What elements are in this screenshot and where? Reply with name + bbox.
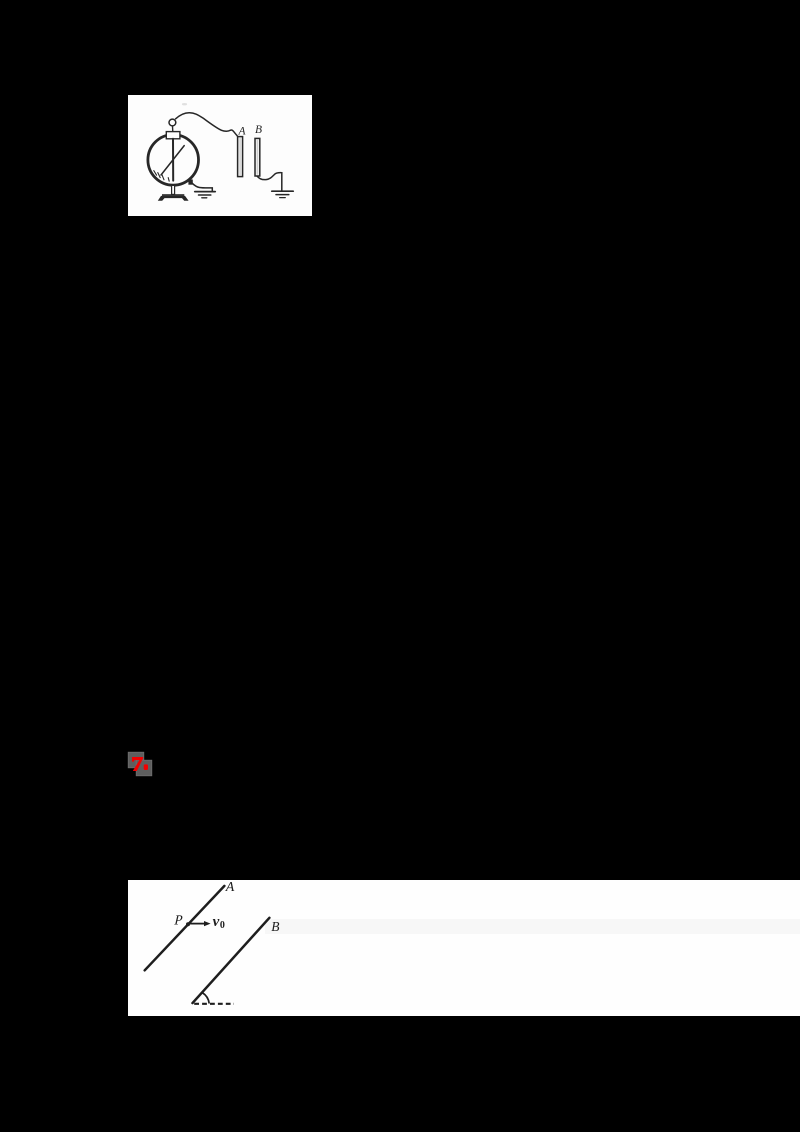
red period dot	[144, 764, 148, 770]
connection nub	[189, 180, 192, 184]
svg-text:B: B	[255, 124, 262, 136]
stand base	[162, 194, 184, 196]
wire plate B to right ground	[257, 173, 282, 191]
wire nub to left ground	[192, 183, 212, 191]
knob stem	[172, 126, 174, 132]
wire knob to plate A	[176, 113, 239, 138]
electroscope knob	[169, 119, 176, 126]
svg-text:A: A	[225, 880, 235, 895]
white strip background	[128, 880, 800, 1016]
white panel background	[128, 95, 312, 216]
figure panel: electroscope with plates A and B	[128, 95, 312, 216]
electroscope cap	[166, 132, 180, 139]
incline A	[145, 886, 225, 970]
plate B	[255, 138, 260, 176]
ground symbol right	[272, 190, 293, 192]
incline B	[193, 918, 270, 1003]
electroscope case circle	[148, 135, 199, 186]
electroscope rod	[172, 139, 174, 181]
faint smudge	[182, 103, 187, 105]
plate A	[238, 137, 243, 177]
ground symbol left	[195, 191, 215, 193]
faint scan band	[265, 919, 800, 934]
point P dot	[186, 922, 190, 926]
svg-text:B: B	[271, 919, 279, 934]
velocity arrow v0	[189, 923, 205, 925]
svg-text:v: v	[213, 914, 220, 930]
scale tick marks	[154, 171, 157, 176]
svg-text:0: 0	[220, 920, 225, 931]
gray square upper	[128, 752, 144, 768]
svg-text:7: 7	[131, 753, 143, 775]
figure panel: inclined planes A and B	[128, 880, 800, 1016]
gray square lower	[136, 760, 152, 776]
angle arc	[202, 993, 209, 1004]
question number 7 marker	[124, 748, 156, 780]
needle	[161, 146, 184, 175]
stand rod	[172, 185, 175, 194]
dashed ground line	[194, 1003, 234, 1005]
svg-text:A: A	[238, 126, 247, 138]
